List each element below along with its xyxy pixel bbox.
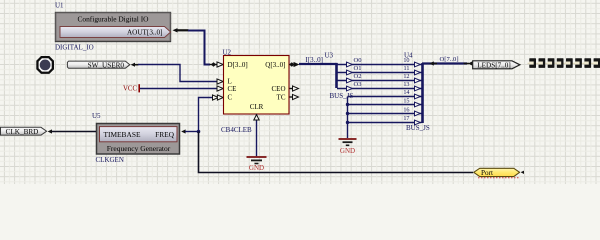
svg-text:GND: GND — [340, 147, 355, 155]
svg-text:U3: U3 — [325, 52, 334, 60]
wire pin17 row — [348, 122, 422, 124]
svg-text:SW_USER0: SW_USER0 — [88, 61, 125, 69]
LED icon LED6 — [584, 58, 591, 68]
bus joiner U3 vertical bus — [335, 63, 338, 88]
svg-text:O2: O2 — [354, 73, 362, 80]
svg-text:LEDS[7..0]: LEDS[7..0] — [477, 61, 511, 69]
svg-text:11: 11 — [404, 65, 410, 72]
svg-text:CEO: CEO — [272, 85, 286, 93]
bus arrow mark at LEDS port — [464, 61, 473, 65]
wire O3 — [337, 88, 422, 90]
pin D[3..0] arrows (bus pin of U2) — [210, 62, 224, 67]
svg-text:O[7..0]: O[7..0] — [440, 56, 459, 63]
wire SW_USER0 to U2 pin L — [131, 63, 217, 82]
sheet symbol U1 Configurable Digital IO — [56, 13, 171, 42]
power port VCC — [123, 84, 139, 92]
port SW_USER0 — [67, 61, 129, 69]
svg-text:U2: U2 — [223, 49, 232, 57]
svg-text:Port: Port — [481, 169, 493, 177]
component U2 CB4CLEB counter — [224, 56, 290, 115]
svg-text:DIGITAL_IO: DIGITAL_IO — [55, 43, 94, 51]
pin CEO arrow — [290, 86, 299, 91]
svg-text:13: 13 — [403, 81, 409, 88]
pushbutton SW icon — [36, 56, 54, 74]
LED icon LED3 — [557, 58, 564, 68]
LED row line — [528, 62, 600, 64]
LED icon LED0 — [529, 58, 536, 68]
svg-text:O0: O0 — [354, 57, 363, 64]
wire O2 — [337, 80, 422, 82]
pin CE arrow — [217, 86, 223, 91]
svg-text:BUS_JS: BUS_JS — [406, 124, 430, 132]
ground GND under U2 — [247, 157, 267, 172]
bus arrow mark at U4 — [429, 61, 437, 65]
svg-text:VCC: VCC — [123, 85, 137, 92]
svg-text:AOUT[3..0]: AOUT[3..0] — [127, 29, 163, 37]
ground GND for pins 14-17 — [339, 139, 357, 155]
svg-text:16: 16 — [403, 107, 409, 114]
LED icon LED4 — [566, 58, 573, 68]
port CLK_BRD — [1, 127, 47, 136]
wire O0 — [337, 64, 422, 66]
wire pin14 row — [348, 96, 422, 98]
wire pin16 row — [348, 113, 422, 115]
bus Q[3..0] to U3 — [299, 63, 337, 65]
svg-text:Frequency Generator: Frequency Generator — [107, 144, 171, 153]
svg-text:O1: O1 — [354, 65, 362, 72]
pin TC arrow — [290, 94, 299, 99]
svg-text:O3: O3 — [354, 81, 363, 88]
wire vertical tie to ground — [347, 97, 349, 139]
svg-text:U1: U1 — [55, 2, 64, 10]
wire pin15 row — [348, 104, 422, 106]
pin CLR wire down to ground — [256, 114, 258, 156]
bus O[7..0] from U4 to LEDS port — [422, 62, 467, 64]
bus entry arrow O2 — [347, 78, 353, 83]
svg-text:FREQ: FREQ — [155, 130, 175, 139]
wire AOUT[3..0] bus from U1 to U2 D[3..0] — [173, 28, 211, 64]
wire junction up to U2 pin C — [199, 98, 218, 132]
LED icon LED7 — [593, 58, 600, 68]
svg-text:12: 12 — [403, 73, 409, 80]
wire VCC to U2 pin CE — [140, 88, 217, 90]
svg-text:CLK_BRD: CLK_BRD — [6, 128, 39, 136]
svg-text:C: C — [228, 94, 233, 102]
port LEDS[7..0] — [473, 61, 520, 70]
svg-text:15: 15 — [403, 98, 409, 105]
svg-text:U5: U5 — [92, 112, 101, 120]
bus entry arrows O0 — [347, 62, 353, 67]
junction dots on ground tie — [346, 103, 349, 106]
svg-text:CLR: CLR — [250, 103, 264, 111]
wire CLK_BRD to U5 TIMEBASE — [48, 129, 96, 133]
sheet entry AOUT[3..0] — [60, 27, 171, 38]
svg-text:I[3..0]: I[3..0] — [306, 56, 324, 64]
svg-text:17: 17 — [403, 115, 409, 122]
svg-text:GND: GND — [249, 164, 264, 172]
bus entry arrow O1 — [347, 70, 353, 75]
svg-text:TC: TC — [277, 94, 286, 102]
pin C arrows — [213, 95, 224, 100]
svg-text:CLKGEN: CLKGEN — [96, 156, 124, 164]
svg-text:CB4CLEB: CB4CLEB — [221, 126, 252, 134]
svg-text:CE: CE — [228, 85, 237, 93]
svg-text:14: 14 — [403, 89, 409, 96]
pin L arrow — [217, 79, 223, 84]
wire junction down and across to Port — [199, 132, 474, 173]
LED icon LED5 — [575, 58, 582, 68]
bus joiner U4 vertical bus — [421, 63, 424, 123]
svg-text:D[3..0]: D[3..0] — [228, 61, 248, 69]
pin CLR up arrow — [254, 115, 259, 120]
pin Q[3..0] arrows — [289, 62, 299, 67]
svg-text:10: 10 — [403, 57, 409, 64]
junction dot FREQ node — [197, 130, 201, 134]
LED icon LED2 — [548, 58, 555, 68]
port Port (yellow) — [474, 168, 524, 178]
wire O1 — [337, 72, 422, 74]
wire U5 FREQ to junction — [181, 129, 198, 133]
svg-text:Configurable Digital IO: Configurable Digital IO — [77, 15, 149, 24]
svg-text:Q[3..0]: Q[3..0] — [265, 61, 285, 69]
bus entry arrow O3 — [347, 86, 353, 91]
svg-text:TIMEBASE: TIMEBASE — [104, 130, 141, 139]
LED icon LED1 — [538, 58, 545, 68]
sheet symbol U5 Frequency Generator — [97, 124, 180, 155]
